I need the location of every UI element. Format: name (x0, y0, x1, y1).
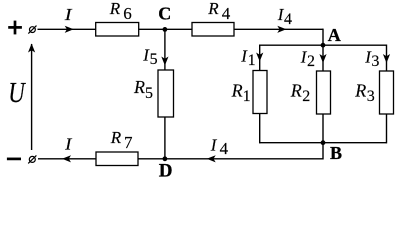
svg-text:R4: R4 (207, 0, 231, 23)
svg-text:I5: I5 (142, 45, 157, 68)
svg-text:C: C (158, 4, 171, 24)
svg-text:R7: R7 (110, 128, 133, 152)
svg-text:R3: R3 (354, 80, 375, 105)
svg-text:I1: I1 (240, 46, 255, 69)
svg-text:I2: I2 (300, 47, 315, 70)
svg-text:I: I (64, 5, 74, 24)
svg-text:I: I (64, 135, 73, 154)
svg-text:A: A (328, 25, 341, 45)
svg-text:B: B (330, 143, 342, 163)
svg-text:R5: R5 (133, 77, 153, 102)
svg-text:I3: I3 (364, 47, 379, 70)
svg-text:U: U (8, 78, 26, 109)
svg-text:R1: R1 (231, 80, 251, 105)
svg-text:R6: R6 (109, 0, 132, 23)
svg-text:R2: R2 (290, 80, 311, 105)
svg-text:I4: I4 (210, 136, 229, 159)
svg-text:D: D (159, 161, 173, 182)
svg-text:I4: I4 (277, 5, 292, 28)
